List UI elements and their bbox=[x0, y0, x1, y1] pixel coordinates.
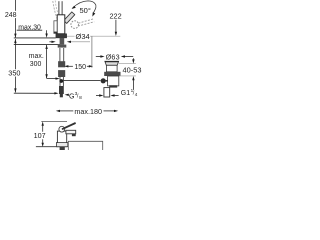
dimension 40-53 bbox=[119, 58, 142, 90]
pop-up rod pivot bbox=[59, 79, 63, 83]
faucet F2 lever bbox=[63, 124, 75, 129]
faucet F1 ghost lever (dashed alternate position) bbox=[53, 1, 58, 20]
drain D1 upper body bbox=[106, 65, 117, 72]
dimension max.180 bbox=[56, 107, 118, 116]
faucet F2 deck line bbox=[36, 146, 58, 148]
faucet F1 spout outlet tube bbox=[54, 21, 57, 33]
label G3/8 bbox=[65, 91, 83, 101]
svg-text:4: 4 bbox=[135, 92, 138, 97]
svg-text:50°: 50° bbox=[80, 6, 91, 15]
svg-text:Ø34: Ø34 bbox=[76, 32, 90, 41]
dimension 248 line bbox=[5, 0, 17, 38]
drain D1 O63 dimension bbox=[96, 52, 133, 61]
svg-text:150: 150 bbox=[74, 64, 86, 71]
label G1 1/4 bbox=[96, 88, 138, 97]
faucet F2 base bbox=[56, 143, 67, 147]
faucet F2 shank bbox=[60, 147, 65, 150]
drain D1 ball joint bbox=[101, 78, 106, 83]
svg-text:max.: max. bbox=[29, 53, 44, 60]
faucet F2 aerator bbox=[72, 134, 76, 136]
faucet F2 knob bbox=[59, 126, 65, 132]
faucet F2 spout bbox=[66, 130, 76, 134]
svg-text:8: 8 bbox=[79, 95, 82, 101]
hose break symbol bbox=[58, 61, 65, 67]
pop-up rod dashed bbox=[78, 19, 93, 23]
drain D1 locknut bbox=[104, 72, 120, 76]
wire O34 leader bbox=[70, 41, 90, 43]
dimension max.30 bbox=[17, 24, 48, 37]
faucet F1 base flange bbox=[56, 34, 67, 38]
pop-up knob dashed circle bbox=[71, 21, 79, 29]
svg-text:Ø63: Ø63 bbox=[106, 52, 120, 61]
deck top line bbox=[14, 37, 56, 39]
svg-text:40-53: 40-53 bbox=[123, 66, 142, 75]
wire 222 reference line bbox=[58, 35, 121, 37]
faucet F2 body bbox=[57, 131, 66, 147]
supply hoses bbox=[59, 48, 61, 62]
mounting nut bbox=[58, 45, 67, 48]
mounting shank through deck bbox=[60, 38, 65, 45]
wire 350 bottom leader to hose end bbox=[14, 92, 55, 94]
hose end nipple G3/8 bbox=[59, 86, 64, 94]
faucet F1 lever handle bbox=[64, 12, 75, 24]
dimension 150 bbox=[64, 64, 93, 71]
svg-text:max.180: max.180 bbox=[74, 107, 102, 116]
dimension 350 line bbox=[8, 39, 20, 93]
dimension 107 bbox=[34, 121, 67, 147]
faucet F1 body bbox=[57, 15, 65, 34]
dimension 222 line bbox=[110, 11, 122, 36]
svg-text:248: 248 bbox=[5, 12, 17, 19]
svg-text:300: 300 bbox=[30, 61, 42, 68]
drain D1 tailpipe bbox=[104, 88, 110, 97]
deck bottom line bbox=[14, 44, 60, 46]
dimension max.300 line bbox=[29, 45, 48, 79]
wire pop-up rod horizontal bbox=[64, 80, 101, 82]
svg-text:G1: G1 bbox=[121, 90, 130, 97]
wire max.300 bottom leader bbox=[47, 78, 56, 80]
basin box bbox=[68, 141, 102, 150]
faucet F1 cartridge stem bbox=[58, 1, 60, 15]
wire extension line x92 bbox=[91, 36, 93, 68]
drain D1 lower body bbox=[108, 76, 119, 86]
svg-text:222: 222 bbox=[110, 11, 122, 20]
hose lower bbox=[59, 77, 61, 86]
svg-text:107: 107 bbox=[34, 131, 46, 140]
drain D1 flange bbox=[105, 61, 119, 65]
svg-text:350: 350 bbox=[8, 69, 20, 78]
arc 50 degree swing bbox=[72, 1, 96, 14]
